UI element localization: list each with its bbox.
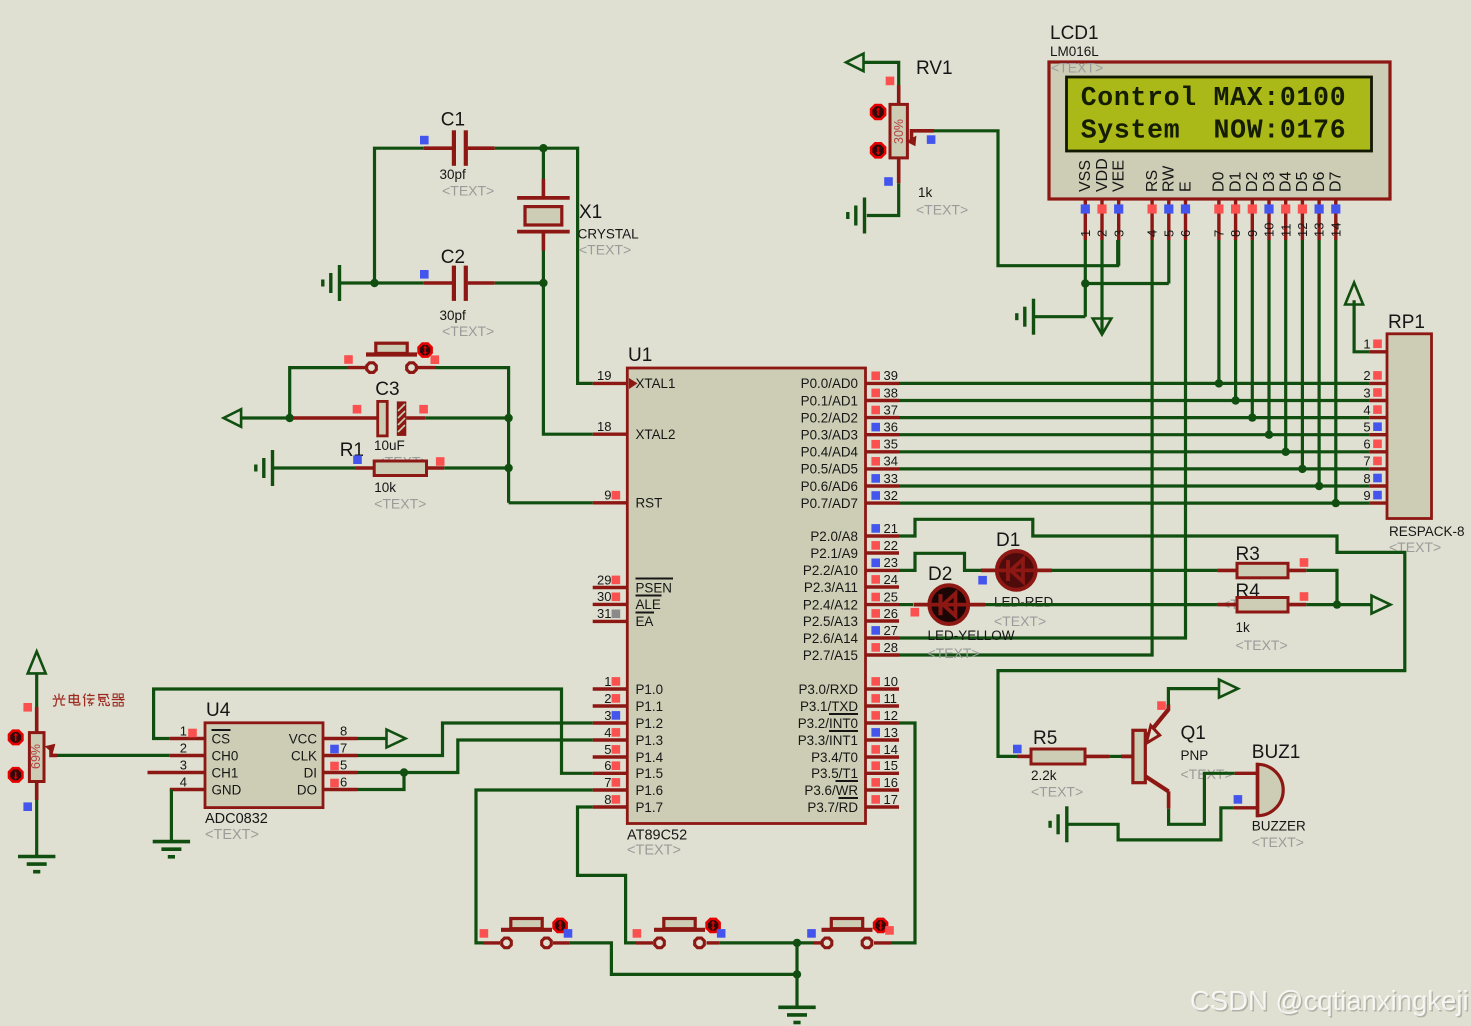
R1 blue square [353, 455, 362, 464]
node R3-R4 junction [1333, 600, 1341, 608]
resistor pack RP1 body [1387, 334, 1432, 519]
svg-text:25: 25 [884, 589, 898, 604]
U1 pin 2 P1.1 [593, 691, 663, 714]
U1 pin 34 P0.5/AD5 [801, 454, 899, 477]
LCD1 body [1049, 62, 1390, 199]
U1 pin 37 P0.2/AD2 [801, 402, 899, 425]
svg-text:7: 7 [1212, 230, 1227, 237]
RP1 pin 4 [1363, 402, 1387, 417]
svg-text:28: 28 [884, 640, 898, 655]
svg-text:DO: DO [297, 782, 317, 797]
R4 label [1236, 581, 1261, 602]
capacitor C3 10uF [290, 401, 426, 436]
svg-text:P3.0/RXD: P3.0/RXD [798, 682, 858, 697]
svg-text:D3: D3 [1261, 171, 1278, 192]
svg-text:RW: RW [1161, 165, 1178, 192]
C3 red square right [419, 405, 428, 414]
wire Q1 collector to BUZ1 [1169, 773, 1235, 824]
svg-text:30pf: 30pf [440, 308, 467, 323]
U1 part name AT89C52 [627, 828, 687, 844]
svg-text:<TEXT>: <TEXT> [442, 183, 494, 199]
node C2-X1 junction [539, 279, 547, 287]
U1 pin 23 P2.2/A10 [803, 555, 899, 578]
wire U4 VCC to power [358, 737, 388, 740]
ground at BUZ1 [1050, 806, 1067, 842]
wire P0.6 row to RP1 pin 8 [899, 484, 1369, 487]
RV1 red square [886, 77, 895, 86]
svg-text:6: 6 [340, 775, 347, 790]
power arrow right of R4 [1372, 596, 1391, 614]
U4 pin 7 CLK [291, 741, 358, 764]
C3 red square left [353, 405, 362, 414]
svg-text:EA: EA [636, 614, 654, 629]
RV1 wiper blue square [927, 135, 936, 144]
Q1 text placeholder [1181, 766, 1233, 782]
R5 label [1033, 728, 1057, 749]
svg-text:P3.6/WR: P3.6/WR [804, 783, 858, 798]
svg-text:P1.4: P1.4 [636, 750, 664, 765]
svg-text:P1.7: P1.7 [636, 800, 664, 815]
U4 pin 2 CH0 [170, 741, 238, 764]
U1 part text placeholder [627, 843, 681, 859]
U1 pin 17 P3.7/RD [807, 792, 899, 815]
svg-text:1: 1 [180, 724, 187, 739]
power arrow at U4 VCC [387, 730, 406, 748]
wire R1 right to RST vertical [444, 466, 508, 469]
node DI-DO junction [400, 768, 408, 776]
svg-text:LED-YELLOW: LED-YELLOW [928, 628, 1015, 643]
RP1 pin 6 [1363, 437, 1387, 452]
svg-text:RV1: RV1 [916, 58, 953, 79]
svg-text:4: 4 [1363, 402, 1370, 417]
svg-text:8: 8 [1363, 471, 1370, 486]
node C2 left junction [370, 279, 378, 287]
wire D1 to R3 [1052, 569, 1217, 572]
svg-text:<TEXT>: <TEXT> [916, 202, 968, 218]
wire RST to U1 [509, 501, 593, 504]
RV1 down button [871, 143, 885, 157]
wire VDD down [1100, 240, 1103, 333]
svg-text:5: 5 [340, 758, 347, 773]
svg-text:BUZ1: BUZ1 [1252, 742, 1301, 763]
BUZ1 text placeholder [1252, 834, 1304, 850]
wire VSS to RW tie [1085, 282, 1169, 285]
ground at buttons [778, 1007, 815, 1022]
C1 value 30pf [440, 167, 467, 182]
D2 part name LED-YELLOW [928, 628, 1015, 643]
RP1 part name RESPACK-8 [1389, 524, 1465, 539]
svg-text:2: 2 [180, 741, 187, 756]
D2 text placeholder [928, 645, 980, 661]
wire C3 right to RST vertical [425, 416, 508, 419]
svg-text:PNP: PNP [1181, 748, 1209, 763]
svg-text:P0.5/AD5: P0.5/AD5 [801, 462, 858, 477]
U1 INT1 overbar [829, 730, 858, 732]
wire D2 to R4 [985, 603, 1217, 606]
node D0 junction [1215, 379, 1223, 387]
U1 pin 22 P2.1/A9 [810, 538, 899, 561]
X1 part name CRYSTAL [578, 227, 640, 242]
svg-text:2: 2 [1095, 230, 1110, 237]
svg-text:RESPACK-8: RESPACK-8 [1389, 524, 1465, 539]
ground at U4 [153, 842, 190, 857]
svg-text:P2.4/A12: P2.4/A12 [803, 597, 858, 612]
svg-text:8: 8 [1228, 230, 1243, 237]
svg-text:D0: D0 [1211, 171, 1228, 192]
svg-text:10k: 10k [374, 480, 396, 495]
wire P2.0 to R5 long net [899, 519, 1405, 756]
wire node to power arrow [1337, 603, 1372, 606]
transistor Q1 PNP [1133, 705, 1169, 809]
svg-text:P1.1: P1.1 [636, 699, 664, 714]
svg-text:8: 8 [340, 724, 347, 739]
wire power to C3 node [241, 416, 290, 419]
svg-text:12: 12 [1295, 223, 1310, 237]
RV1 up button [871, 105, 885, 119]
svg-text:23: 23 [884, 555, 898, 570]
LCD1 pin 1 VSS [1077, 160, 1094, 240]
wire RP1 pin1 to power [1354, 300, 1369, 352]
U1 pin 5 P1.4 [593, 742, 664, 765]
svg-text:U1: U1 [628, 345, 652, 366]
photo sensor label guangdian chuanganqi [53, 694, 125, 707]
IC U1 AT89C52 body [627, 368, 865, 824]
svg-text:12: 12 [884, 708, 898, 723]
wire U4 CS to P1.5 [154, 689, 593, 773]
U1 PSEN overbar [636, 578, 674, 580]
wire junction down [795, 943, 798, 975]
node VSS-RW junction [1081, 279, 1089, 287]
svg-text:<TEXT>: <TEXT> [1031, 784, 1083, 800]
svg-text:30: 30 [597, 589, 611, 604]
LCD1 pin 10 D3 [1261, 171, 1278, 240]
power arrow at sensor [28, 651, 46, 673]
svg-text:CLK: CLK [291, 748, 317, 763]
svg-text:6: 6 [1178, 230, 1193, 237]
svg-text:GND: GND [212, 782, 242, 797]
node D5 junction [1298, 465, 1306, 473]
svg-text:P1.5: P1.5 [636, 766, 664, 781]
svg-text:C2: C2 [441, 247, 465, 268]
potentiometer RV1 [890, 85, 907, 183]
svg-text:11: 11 [1278, 224, 1293, 238]
U1 XTAL1 clock mark [629, 378, 638, 389]
svg-text:2: 2 [604, 691, 611, 706]
svg-text:P2.7/A15: P2.7/A15 [803, 648, 858, 663]
wire P0.1 row to RP1 pin 3 [899, 399, 1369, 402]
push button 2 [636, 919, 720, 948]
wire D0 down to P0.0 [1217, 240, 1220, 383]
RP1 pin 3 [1363, 385, 1387, 400]
R1 text placeholder [374, 496, 426, 512]
svg-text:<TEXT>: <TEXT> [579, 242, 631, 258]
RP1 label [1388, 312, 1425, 333]
U1 pin 28 P2.7/A15 [803, 640, 899, 663]
U1 pin 14 P3.4/T0 [811, 742, 899, 765]
svg-text:13: 13 [1312, 223, 1327, 237]
svg-text:D1: D1 [1227, 171, 1244, 192]
svg-text:P1.0: P1.0 [636, 682, 664, 697]
ground at sensor [18, 857, 55, 872]
C3 value 10uF [374, 438, 405, 453]
U4 text placeholder [205, 827, 259, 843]
LCD1 screen line2 [1081, 116, 1347, 146]
svg-text:32: 32 [884, 488, 898, 503]
svg-text:CH1: CH1 [212, 765, 239, 780]
R4 red square [1300, 592, 1309, 601]
svg-text:7: 7 [1363, 454, 1370, 469]
svg-text:VEE: VEE [1111, 160, 1128, 192]
svg-text:10: 10 [884, 674, 898, 689]
wire down to ground [795, 974, 798, 1007]
U1 pin 15 P3.5/T1 [811, 758, 899, 781]
RP1 pin 2 [1363, 368, 1387, 383]
svg-text:31: 31 [597, 606, 611, 621]
wire P0.0 row to RP1 pin 2 [899, 382, 1369, 385]
wire P0.2 row to RP1 pin 4 [899, 416, 1369, 419]
sensor wiper arrow [45, 744, 57, 756]
svg-text:21: 21 [884, 521, 898, 536]
button1 blue square [564, 929, 573, 938]
wire P0.4 row to RP1 pin 6 [899, 450, 1369, 453]
wire VEE down to RV1 net [1117, 240, 1120, 266]
resistor R5 2.2k [1017, 749, 1109, 764]
wire P2.4 to D2 [899, 603, 913, 606]
wire U4 CLK to P1.2 [358, 723, 593, 756]
wire sensor wiper to U4 CH0 [57, 754, 170, 757]
svg-text:P0.6/AD6: P0.6/AD6 [801, 479, 858, 494]
RV1 label [916, 58, 953, 79]
RP1 pin 9 [1363, 488, 1387, 503]
button2 blue square [717, 929, 726, 938]
svg-text:D7: D7 [1328, 171, 1345, 192]
svg-text:30pf: 30pf [440, 167, 467, 182]
svg-text:8: 8 [604, 792, 611, 807]
svg-text:5: 5 [1363, 420, 1370, 435]
svg-text:P1.6: P1.6 [636, 783, 664, 798]
svg-text:P2.0/A8: P2.0/A8 [810, 529, 858, 544]
U1 INT0 overbar [829, 713, 858, 715]
U1 pin 31 EA [593, 606, 654, 629]
svg-text:P0.2/AD2: P0.2/AD2 [801, 410, 858, 425]
push button 1 [483, 919, 570, 948]
U4 CS overbar [212, 729, 231, 731]
svg-text:ALE: ALE [636, 597, 661, 612]
svg-text:<TEXT>: <TEXT> [205, 827, 259, 843]
node D3 junction [1265, 431, 1273, 439]
power arrow at C3 [224, 409, 242, 427]
svg-text:1k: 1k [918, 185, 933, 200]
svg-text:P0.7/AD7: P0.7/AD7 [801, 496, 858, 511]
R1 ref label [340, 440, 364, 461]
svg-text:7: 7 [604, 775, 611, 790]
wire C1 right to crystal node [495, 147, 544, 150]
U1 pin 32 P0.7/AD7 [801, 488, 899, 511]
ground at R1 [256, 450, 273, 486]
Q1 label [1181, 723, 1206, 744]
svg-text:System NOW:0176: System NOW:0176 [1081, 116, 1347, 146]
svg-text:5: 5 [604, 742, 611, 757]
svg-text:PSEN: PSEN [636, 580, 672, 595]
svg-text:CSDN @cqtianxingkeji: CSDN @cqtianxingkeji [1190, 985, 1469, 1016]
U1 pin 11 P3.1/TXD [800, 691, 899, 714]
node D6 junction [1315, 482, 1323, 490]
wire Q1 emitter to power [1168, 689, 1219, 705]
wire D7 down to P0.7 [1334, 240, 1337, 503]
svg-text:6: 6 [1363, 437, 1370, 452]
C1 label [441, 110, 465, 131]
node R1 junction [504, 464, 512, 472]
svg-text:P0.0/AD0: P0.0/AD0 [801, 376, 858, 391]
svg-text:<TEXT>: <TEXT> [994, 613, 1046, 629]
svg-text:38: 38 [884, 385, 898, 400]
U1 pin 6 P1.5 [593, 758, 663, 781]
wire VSS down [1084, 240, 1087, 317]
svg-text:P2.3/A11: P2.3/A11 [804, 580, 858, 595]
wire sensor bottom to ground [35, 800, 38, 856]
wire D2 down to P0.2 [1251, 240, 1254, 418]
svg-text:1: 1 [1078, 230, 1093, 237]
reset button [348, 343, 436, 372]
RV1 value 1k [918, 185, 933, 200]
wire R4 right to power node [1306, 603, 1337, 606]
RV1 wiper arrow [906, 131, 934, 146]
U1 pin 33 P0.6/AD6 [801, 471, 899, 494]
wire crystal node to XTAL1 [543, 148, 592, 383]
LED D1 red [981, 551, 1052, 590]
node C3 right junction [504, 414, 512, 422]
svg-text:P2.1/A9: P2.1/A9 [810, 546, 858, 561]
U4 pin 1 CS [170, 724, 230, 747]
svg-text:P2.2/A10: P2.2/A10 [803, 563, 858, 578]
svg-text:P1.2: P1.2 [636, 716, 664, 731]
sensor red square [23, 703, 32, 712]
svg-text:2.2k: 2.2k [1031, 768, 1057, 783]
R5 blue square [1013, 745, 1022, 754]
svg-text:VDD: VDD [1094, 158, 1111, 192]
C3 label [375, 379, 399, 400]
svg-text:CRYSTAL: CRYSTAL [578, 227, 640, 242]
svg-text:<TEXT>: <TEXT> [627, 843, 681, 859]
LCD1 pin 5 RW [1161, 165, 1178, 240]
svg-text:LED-RED: LED-RED [994, 595, 1054, 610]
node C1-X1 junction [539, 144, 547, 152]
BUZ1 label [1252, 742, 1301, 763]
svg-text:D4: D4 [1278, 171, 1295, 192]
R3 red square [1300, 558, 1309, 567]
svg-text:30%: 30% [892, 119, 906, 144]
svg-text:D2: D2 [1244, 171, 1261, 192]
U1 RD overbar [839, 797, 859, 799]
C2 blue square [420, 270, 429, 279]
RP1 pin 7 [1363, 454, 1387, 469]
svg-text:P1.3: P1.3 [636, 733, 664, 748]
U4 part name ADC0832 [205, 811, 268, 827]
svg-text:<TEXT>: <TEXT> [928, 645, 980, 661]
U1 WR overbar [836, 780, 859, 782]
svg-text:P2.6/A14: P2.6/A14 [803, 631, 859, 646]
BUZ1 blue square [1234, 795, 1243, 804]
svg-text:U4: U4 [206, 700, 231, 721]
svg-text:2: 2 [1363, 368, 1370, 383]
Q1 emitter red square [1157, 701, 1166, 710]
svg-text:<TEXT>: <TEXT> [1252, 834, 1304, 850]
wire reset left down to C3 node [290, 368, 348, 418]
LCD1 pin 13 D6 [1311, 171, 1328, 240]
U1 pin 35 P0.4/AD4 [801, 437, 899, 460]
BUZ1 part name BUZZER [1252, 819, 1306, 834]
RP1 pin 1 [1363, 337, 1387, 352]
node C3 left junction [286, 414, 294, 422]
svg-text:13: 13 [884, 725, 898, 740]
svg-text:CS: CS [212, 731, 231, 746]
wire RW down [1167, 240, 1170, 284]
U4 pin 4 GND [170, 775, 242, 798]
ground at RV1 [848, 198, 865, 234]
svg-text:BUZZER: BUZZER [1252, 819, 1306, 834]
node D2 junction [1248, 413, 1256, 421]
R4 value 1k [1236, 620, 1251, 635]
svg-text:C3: C3 [375, 379, 399, 400]
svg-text:LCD1: LCD1 [1050, 23, 1099, 44]
wire reset right down to RST net [436, 368, 509, 503]
R3 text placeholder [1222, 596, 1274, 612]
wire D3 down to P0.3 [1267, 240, 1270, 435]
wire P0.7 row to RP1 pin 9 [899, 502, 1369, 505]
LCD1 pin 7 D0 [1211, 171, 1228, 240]
wire P2.2 to D1 [899, 553, 985, 570]
CSDN watermark [1190, 985, 1470, 1018]
button3 red square [885, 926, 894, 935]
svg-text:XTAL1: XTAL1 [636, 376, 676, 391]
svg-text:24: 24 [884, 572, 898, 587]
wire P3.2 to button3 [891, 723, 915, 943]
svg-text:<TEXT>: <TEXT> [1236, 637, 1288, 653]
wire D6 down to P0.6 [1317, 240, 1320, 486]
D1 part name LED-RED [994, 595, 1054, 610]
U4 pin 3 CH1 [148, 758, 239, 781]
wire button1 to ground row [570, 943, 797, 975]
svg-text:C1: C1 [441, 110, 465, 131]
svg-text:16: 16 [884, 775, 898, 790]
U1 pin 12 P3.2/INT0 [798, 708, 899, 731]
capacitor C2 [375, 266, 495, 301]
C1 blue square [420, 136, 429, 145]
LCD1 pin 3 VEE [1111, 160, 1128, 240]
wire C1 left to C2 left vertical [375, 148, 424, 283]
reset button red square [344, 355, 353, 364]
wire C2 right to X1 bottom node [495, 281, 544, 284]
D2 red square [911, 608, 920, 617]
buzzer BUZ1 [1234, 763, 1284, 817]
X1 text placeholder [579, 242, 631, 258]
RV1 text placeholder [916, 202, 968, 218]
LCD1 pin 4 RS [1144, 170, 1161, 240]
svg-text:<TEXT>: <TEXT> [442, 323, 494, 339]
node D7 junction [1332, 499, 1340, 507]
sensor bottom blue square [23, 802, 32, 811]
svg-text:18: 18 [597, 419, 611, 434]
svg-text:27: 27 [884, 623, 898, 638]
U1 pin 19 XTAL1 [593, 368, 676, 391]
svg-text:3: 3 [180, 758, 187, 773]
R3 label [1236, 544, 1260, 565]
node lower ground junction [793, 970, 801, 978]
svg-text:3: 3 [604, 708, 611, 723]
X1 label [579, 202, 602, 223]
svg-text:39: 39 [884, 368, 898, 383]
LCD1 part name LM016L [1050, 44, 1099, 59]
